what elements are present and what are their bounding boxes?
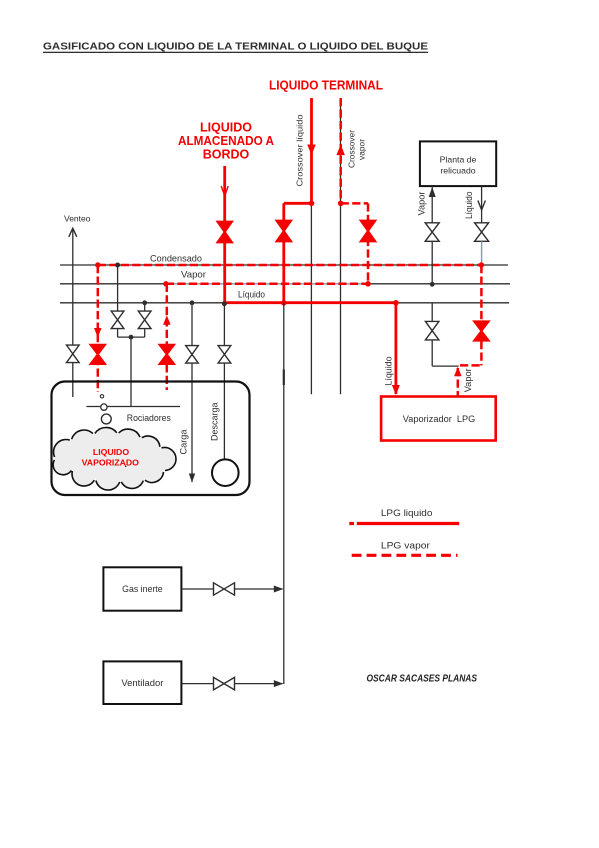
valve V14 black bypass (425, 321, 439, 340)
label Condensado (150, 254, 202, 264)
pipe: black drop to bypass valve (431, 303, 433, 322)
arrow down red condensado drop (94, 328, 102, 338)
junction red dot crossover vapor bottom (365, 281, 371, 287)
label Rociadores (127, 413, 171, 423)
pipe: red dashed over Condensado header (98, 264, 482, 267)
pipe: main vertical drop to gas lines (283, 303, 285, 684)
pipe: red dashed elbow to vapor valve (341, 203, 368, 283)
pipe: liquido drop from planta (481, 187, 483, 243)
junction dot planta vapor (430, 282, 435, 287)
junction red dot crossover vapor top (338, 201, 344, 207)
pipe: thick segment on main drop (283, 370, 285, 386)
legend line LPG liquido (349, 522, 459, 525)
svg-text:LIQUIDO: LIQUIDO (93, 447, 129, 457)
junction red dot condensado left (95, 262, 100, 267)
arrow up red vapor riser (163, 315, 171, 325)
svg-text:Rociadores: Rociadores (127, 413, 171, 423)
box Ventilador (103, 661, 181, 704)
cloud LIQUIDO VAPORIZADO shape (53, 427, 176, 490)
arrow up red crossover vapor (336, 145, 345, 156)
svg-text:LIQUIDO: LIQUIDO (200, 121, 252, 135)
valve V11 planta vapor (425, 223, 439, 242)
sprinkler nozzle big circle (101, 414, 111, 424)
pipe: Carga line (191, 303, 193, 482)
pipe: vapor riser to planta (431, 187, 433, 285)
junction red dot liquido-vaporizador (393, 300, 399, 306)
arrow down red crossover liquido (307, 145, 316, 156)
legend text LPG liquido (381, 508, 433, 518)
label LIQUIDO ALMACENADO A BORDO (178, 121, 274, 162)
arrow right ventilador (274, 680, 284, 687)
label Liquido vaporizador (rotated) (384, 357, 394, 386)
junction dot bracket (129, 335, 134, 340)
svg-text:LIQUIDO TERMINAL: LIQUIDO TERMINAL (269, 79, 383, 93)
pipe: Venteo vertical (72, 229, 74, 397)
pipe: blue segment valve to condensado (481, 241, 483, 265)
valve V5 red vapor riser (158, 344, 175, 365)
svg-text:VAPORIZADO: VAPORIZADO (82, 458, 140, 468)
label Vapor planta (rotated) (417, 192, 427, 216)
svg-text:Gas inerte: Gas inerte (122, 584, 163, 594)
arrow up Venteo (69, 228, 77, 237)
pipe: black line under crossover liquido (310, 98, 312, 394)
arrow down carga (189, 474, 195, 483)
box Planta de relicuado (420, 141, 496, 186)
legend line LPG vapor (352, 554, 458, 557)
label Carga (rotated) (179, 430, 189, 455)
pipe: liquido-to-bracket branch (144, 303, 146, 311)
svg-text:Carga: Carga (179, 430, 189, 455)
sprinkler pipe Rociadores (86, 406, 180, 408)
svg-text:Crossover líquido: Crossover líquido (294, 114, 304, 186)
pipe: Vapor header line grey left segment (60, 283, 166, 285)
pipe: condensado-to-tank branch upper (117, 265, 119, 311)
junction dot descarga over red corner (222, 301, 227, 306)
sprinkler nozzle mid circle (101, 404, 107, 410)
svg-text:Vapor: Vapor (417, 192, 427, 216)
pipe: bracket drop to sprinkler (130, 337, 132, 406)
valve V12 planta liquido (475, 223, 489, 242)
pipe: black elbow to vapor outlet (432, 340, 459, 366)
valve V10 red crossover vapor (360, 220, 377, 242)
svg-text:ALMACENADO A: ALMACENADO A (178, 134, 274, 148)
label Vapor outlet (rotated) (463, 368, 473, 392)
junction dot liquido bracket (142, 300, 147, 305)
svg-text:LPG liquido: LPG liquido (381, 508, 433, 518)
junction red dot vapor left (163, 281, 168, 286)
pipe: red dashed below valve + elbow (460, 341, 481, 365)
junction red dot liquido-crossover (281, 300, 287, 306)
pipe: gas inerte line (181, 588, 282, 590)
svg-text:relicuado: relicuado (440, 166, 475, 176)
label Venteo (64, 214, 91, 224)
svg-text:Planta de: Planta de (440, 155, 477, 165)
box Gas inerte (103, 567, 181, 610)
arrow down planta liquido (478, 201, 486, 211)
svg-text:Líquido: Líquido (238, 290, 265, 300)
pipe: bracket right leg (144, 329, 146, 337)
arrow down red into vaporizador (392, 385, 400, 395)
svg-text:BORDO: BORDO (203, 148, 250, 162)
svg-text:Ventilador: Ventilador (121, 678, 163, 688)
pipe: red elbow to crossover valve (284, 203, 312, 302)
svg-text:Descarga: Descarga (210, 403, 220, 442)
junction red dot crossover liquido (309, 201, 315, 207)
title: GASIFICADO CON LIQUIDO DE LA TERMINAL O LIQUIDO DEL BUQUE (43, 41, 428, 53)
svg-text:Condensado: Condensado (150, 254, 202, 264)
pump circle descarga (212, 459, 239, 486)
label Descarga (rotated) (210, 403, 220, 442)
label Vapor (181, 270, 206, 280)
tank (ship cargo tank rounded rect) (52, 382, 250, 496)
svg-text:LPG vapor: LPG vapor (381, 541, 430, 551)
svg-text:GASIFICADO CON LIQUIDO DE LA T: GASIFICADO CON LIQUIDO DE LA TERMINAL O … (43, 41, 428, 53)
valve V16 ventilador (214, 677, 235, 690)
legend text LPG vapor (381, 541, 430, 551)
junction dot condensado branch over dashes (115, 263, 120, 268)
pipe: red bordo feed vertical (223, 166, 226, 303)
valve V13 red vaporizador vapor (473, 321, 490, 341)
pipe: red dashed vapor riser (166, 284, 169, 390)
valve V15 gas inerte (214, 583, 235, 595)
arrow up into planta (429, 187, 436, 197)
svg-text:vapor: vapor (357, 139, 367, 160)
arrow down red bordo (221, 186, 228, 196)
junction dot condensado branch (115, 263, 120, 268)
pipe: Vapor header line blue underlay (dashed overlay region) (166, 283, 368, 285)
valve V2 condensado branch (111, 311, 124, 329)
pipe: Condensado header line (grey) (60, 264, 508, 266)
sprinkler nozzle small circle (100, 395, 103, 398)
svg-text:Venteo: Venteo (64, 214, 91, 224)
arrow right gas inerte (274, 586, 284, 593)
label Liquido planta (rotated) (464, 192, 474, 220)
valve V8 red bordo (216, 221, 233, 243)
valve V9 red crossover liquido (275, 220, 292, 242)
svg-text:OSCAR SACASES PLANAS: OSCAR SACASES PLANAS (367, 672, 478, 684)
pipe: ventilador line (181, 683, 282, 685)
svg-text:Vapor: Vapor (181, 270, 206, 280)
pipe: bracket left leg (118, 329, 145, 337)
valve V6 carga (186, 346, 199, 364)
valve V4 red condensado drop (89, 344, 106, 365)
label Crossover liquido (rotated) (294, 114, 304, 186)
valve V7 descarga (218, 346, 231, 364)
pipe: red dashed crossover vapor vertical (339, 98, 342, 203)
label Crossover vapor (rotated) (347, 130, 367, 168)
signature OSCAR SACASES PLANAS (367, 672, 478, 684)
valve V3 bracket right (138, 311, 151, 329)
svg-text:Líquido: Líquido (384, 357, 394, 386)
box Vaporizador LPG (381, 397, 496, 441)
valve V1 Venteo (67, 345, 80, 363)
pipe: red dashed drop from condensado (480, 265, 483, 321)
pipe: red dashed vapor outlet riser (457, 368, 460, 396)
svg-text:Vaporizador LPG: Vaporizador LPG (403, 414, 476, 424)
pipe: red dashed condensado drop (97, 265, 100, 392)
junction dot descarga (222, 301, 227, 306)
pipe: Descarga line (223, 304, 225, 460)
label Liquido header (238, 290, 265, 300)
pipe: red drop to Vaporizador (394, 303, 397, 394)
pipe: Liquido header line (grey) (60, 302, 509, 304)
pipe: red thick Liquido header (225, 301, 396, 304)
svg-text:Líquido: Líquido (464, 192, 474, 220)
label LIQUIDO TERMINAL (269, 79, 383, 93)
arrow up red vapor outlet (454, 367, 462, 377)
pipe: red crossover liquido vertical (310, 98, 313, 203)
pipe: Vapor header line grey right segment (368, 283, 510, 285)
svg-text:Vapor: Vapor (463, 368, 473, 392)
junction red dot condensado right (479, 262, 484, 267)
junction dot carga (190, 300, 195, 305)
svg-text:Crossover: Crossover (347, 130, 357, 168)
pipe: black line under crossover vapor (340, 98, 342, 394)
pipe: red dashed over Vapor header (166, 283, 368, 286)
